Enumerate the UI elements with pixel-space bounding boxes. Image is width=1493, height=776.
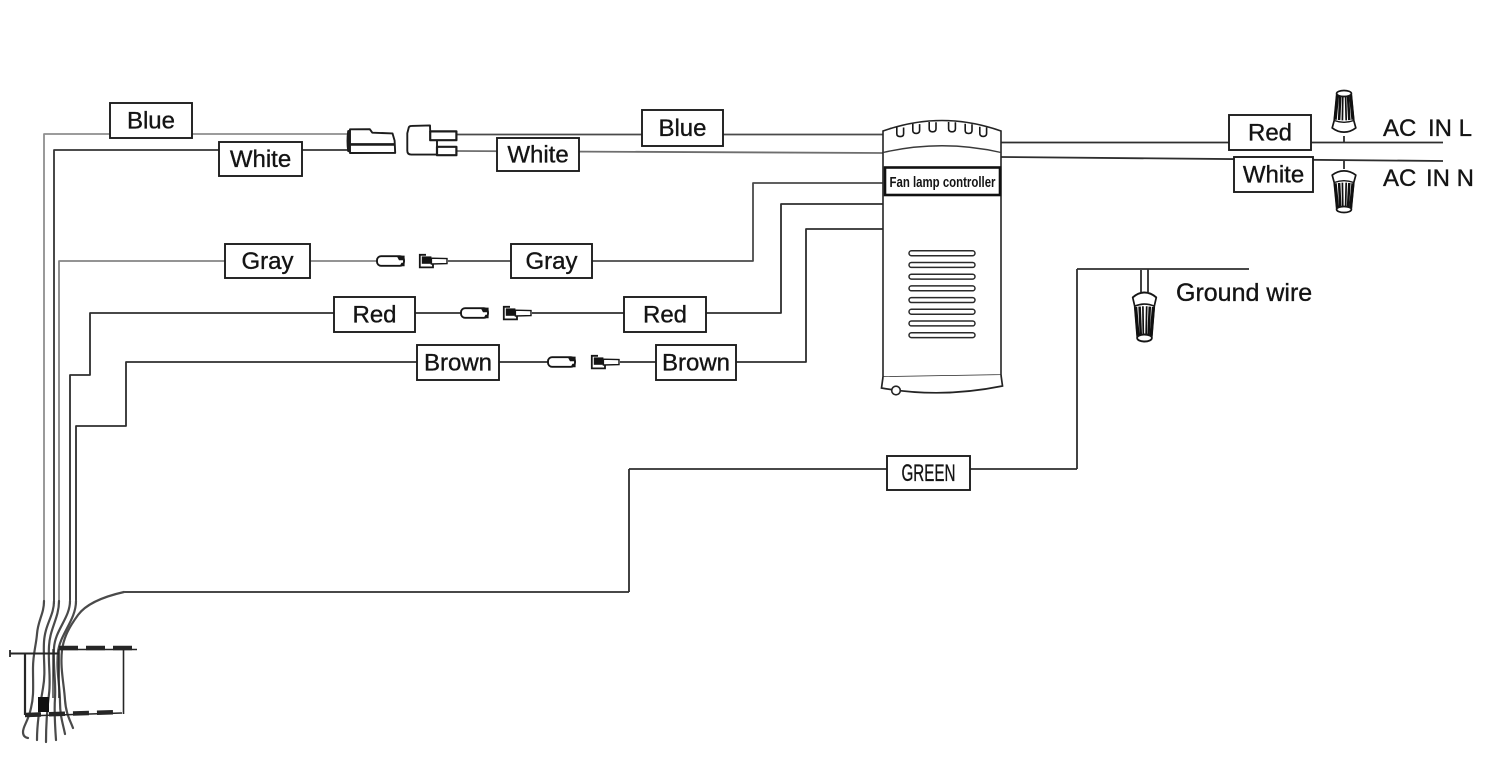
svg-text:Brown: Brown [424,350,492,377]
svg-text:Red: Red [643,302,687,329]
svg-text:GREEN: GREEN [902,460,956,487]
svg-text:AC: AC [1383,115,1416,142]
svg-text:IN L: IN L [1428,115,1472,142]
svg-text:Brown: Brown [662,350,730,377]
svg-text:Gray: Gray [241,248,293,275]
svg-text:White: White [1243,162,1304,189]
svg-text:Fan lamp controller: Fan lamp controller [890,174,996,191]
svg-text:White: White [507,142,568,169]
svg-text:AC: AC [1383,165,1416,192]
svg-text:White: White [230,146,291,173]
svg-text:Red: Red [1248,120,1292,147]
svg-text:Red: Red [352,302,396,329]
svg-text:Blue: Blue [658,115,706,142]
svg-text:Ground wire: Ground wire [1176,279,1312,307]
svg-text:Gray: Gray [525,248,577,275]
svg-text:Blue: Blue [127,108,175,135]
svg-text:IN N: IN N [1426,165,1474,192]
